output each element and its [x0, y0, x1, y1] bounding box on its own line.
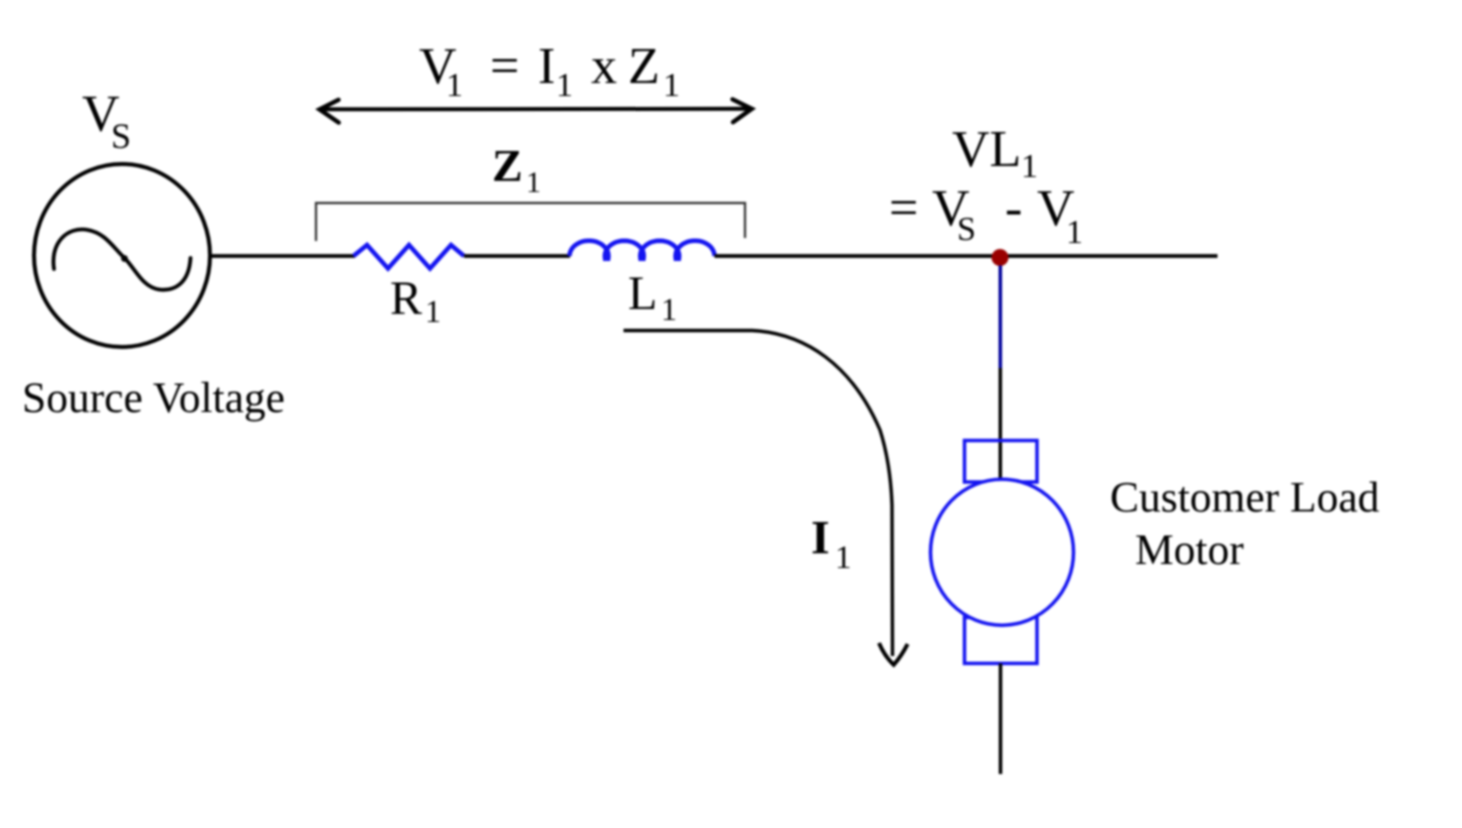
svg-text:Customer Load: Customer Load [1110, 474, 1380, 522]
svg-text:L: L [628, 267, 657, 320]
label Customer Load Motor [1110, 474, 1380, 575]
svg-text:Source Voltage: Source Voltage [22, 374, 285, 422]
svg-text:I: I [811, 512, 830, 565]
inductor L1 [570, 241, 715, 259]
impedance bracket Z1 [316, 203, 745, 241]
label Source Voltage [22, 374, 285, 422]
voltage source VS circle [34, 164, 210, 347]
svg-text:Z: Z [492, 140, 523, 191]
svg-text:Motor: Motor [1135, 526, 1244, 574]
svg-text:1: 1 [425, 293, 441, 329]
label VS [82, 86, 131, 157]
current arrow I1 [624, 331, 908, 665]
svg-text:1: 1 [1066, 214, 1083, 251]
svg-text:1: 1 [526, 166, 541, 199]
svg-text:S: S [111, 116, 131, 156]
svg-text:R: R [390, 272, 422, 325]
svg-text:I: I [538, 38, 555, 95]
motor M body circle [931, 479, 1074, 625]
wire inductor to node [715, 254, 1218, 258]
svg-text:1: 1 [446, 67, 463, 104]
label L1 [628, 267, 677, 327]
label = VS - V1 [889, 180, 1083, 251]
motor M top terminal box [965, 441, 1038, 483]
svg-text:1: 1 [661, 291, 677, 327]
svg-text:Z: Z [628, 38, 660, 95]
wire below motor [999, 664, 1003, 775]
svg-text:1: 1 [1021, 148, 1038, 185]
svg-text:=: = [889, 180, 918, 237]
wire resistor to inductor [464, 254, 570, 258]
svg-text:S: S [957, 211, 976, 248]
svg-text:=: = [490, 38, 519, 95]
svg-text:1: 1 [835, 540, 852, 576]
svg-text:VL: VL [952, 121, 1021, 178]
measurement arrow V1 span [320, 99, 752, 122]
wire node to motor (black segment) [999, 368, 1003, 484]
svg-text:-: - [1005, 180, 1022, 237]
wire source to resistor [210, 254, 355, 258]
formula V1 = I1 x Z1 [419, 38, 680, 104]
node junction dot [992, 249, 1009, 266]
svg-text:1: 1 [556, 67, 573, 104]
motor M bottom terminal box [965, 617, 1038, 663]
svg-text:x: x [591, 38, 617, 95]
voltage source sine wave [53, 229, 190, 289]
label Z1 [492, 140, 541, 199]
resistor R1 [354, 245, 465, 269]
wire node to motor (blue segment) [999, 266, 1003, 369]
svg-text:1: 1 [663, 67, 680, 104]
label R1 [390, 272, 441, 329]
label VL1 [952, 121, 1038, 185]
label I1 [811, 512, 852, 577]
